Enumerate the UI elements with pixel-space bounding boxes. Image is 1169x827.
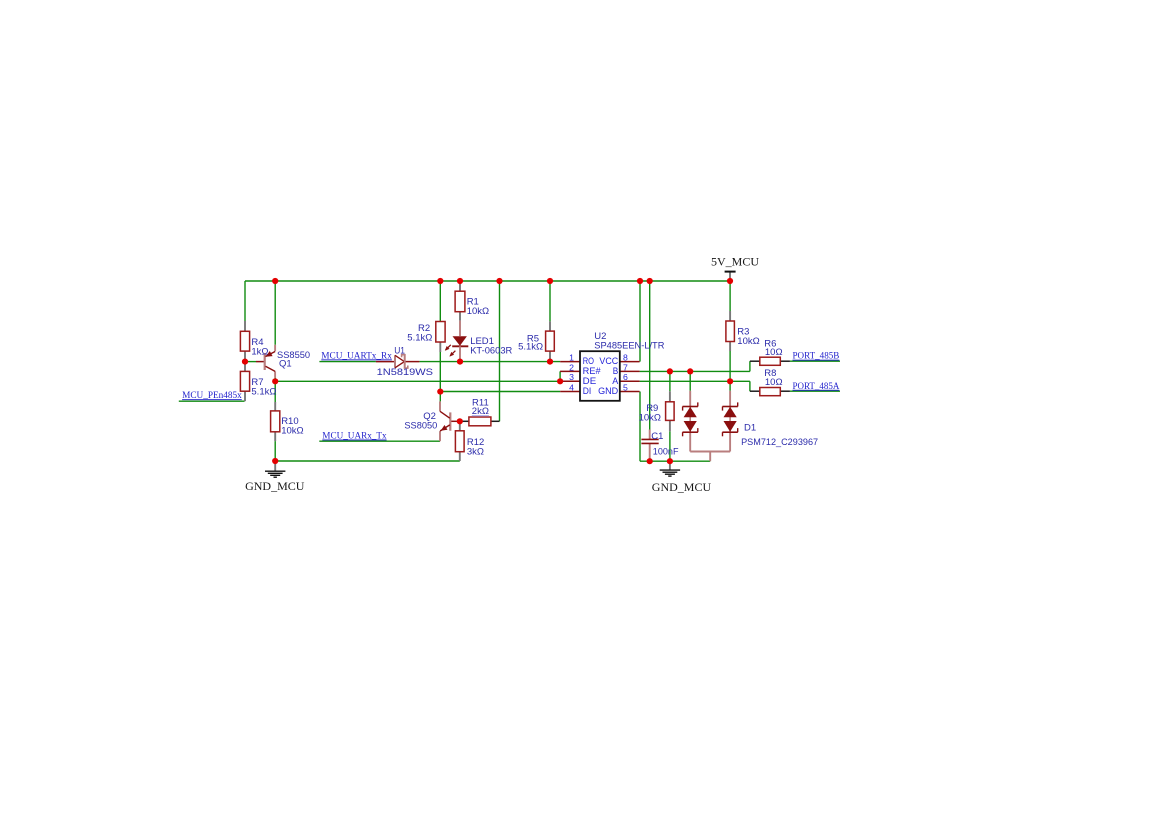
svg-text:MCU_UARx_Tx: MCU_UARx_Tx [322,431,387,441]
svg-text:MCU_PEn485x: MCU_PEn485x [182,390,242,400]
svg-text:1: 1 [569,353,574,363]
svg-text:5.1kΩ: 5.1kΩ [251,386,276,397]
svg-text:3: 3 [569,372,574,382]
svg-text:PORT_485B: PORT_485B [793,351,840,361]
svg-text:10Ω: 10Ω [765,347,783,358]
svg-text:B: B [613,366,619,376]
svg-text:RE#: RE# [583,366,602,376]
svg-text:GND_MCU: GND_MCU [652,480,712,494]
svg-text:VCC: VCC [599,356,618,366]
svg-text:A: A [612,376,619,386]
svg-text:RO: RO [583,356,594,366]
svg-text:10kΩ: 10kΩ [467,306,489,317]
svg-text:100nF: 100nF [653,446,679,457]
svg-text:PORT_485A: PORT_485A [793,381,840,391]
svg-text:SS8050: SS8050 [404,420,437,431]
svg-text:10kΩ: 10kΩ [639,412,661,423]
svg-text:SP485EEN-L/TR: SP485EEN-L/TR [594,340,664,351]
svg-text:5: 5 [623,382,628,392]
svg-text:7: 7 [623,362,628,372]
svg-text:Q1: Q1 [279,358,292,369]
svg-text:PSM712_C293967: PSM712_C293967 [741,437,818,448]
svg-text:6: 6 [623,372,628,382]
svg-text:3kΩ: 3kΩ [467,447,484,458]
svg-text:KT-0603R: KT-0603R [470,346,512,357]
svg-text:GND_MCU: GND_MCU [245,479,305,493]
svg-text:1N5819WS: 1N5819WS [377,367,433,378]
svg-text:2: 2 [569,362,574,372]
svg-text:5V_MCU: 5V_MCU [711,254,759,268]
svg-text:10Ω: 10Ω [765,377,783,388]
svg-text:1kΩ: 1kΩ [251,347,268,358]
svg-text:5.1kΩ: 5.1kΩ [518,342,543,353]
svg-text:DI: DI [583,386,592,396]
svg-text:GND: GND [598,386,619,396]
svg-text:C1: C1 [651,431,663,442]
svg-text:5.1kΩ: 5.1kΩ [407,333,432,344]
svg-text:10kΩ: 10kΩ [281,425,303,436]
svg-text:2kΩ: 2kΩ [472,406,489,417]
svg-text:D1: D1 [744,422,756,433]
svg-text:DE: DE [583,376,597,386]
svg-text:4: 4 [569,382,574,392]
svg-text:U1: U1 [394,345,405,356]
svg-text:MCU_UARTx_Rx: MCU_UARTx_Rx [321,350,392,360]
svg-text:8: 8 [623,353,628,363]
svg-text:10kΩ: 10kΩ [737,336,759,347]
